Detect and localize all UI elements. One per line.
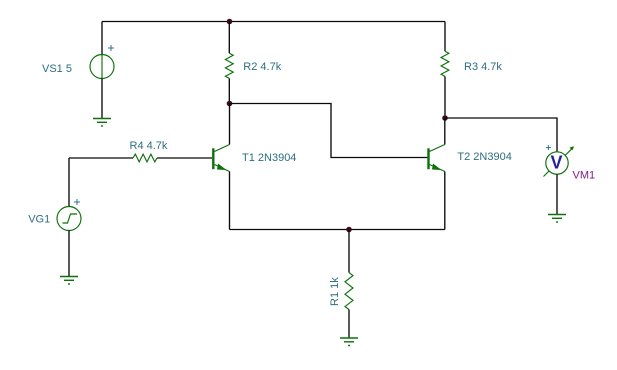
VM1 plus sign bbox=[546, 145, 551, 150]
resistor R1 bbox=[345, 273, 353, 310]
transistor T1 2N3904 bbox=[213, 145, 229, 172]
svg-text:R4 4.7k: R4 4.7k bbox=[130, 140, 168, 152]
transistor T2 2N3904 bbox=[429, 145, 445, 172]
wire R4 to T1 base bbox=[157, 157, 212, 159]
generator VG1 bbox=[57, 207, 81, 231]
node R2-T1 collector junction bbox=[227, 101, 233, 107]
wire cross-coupling R2 node to T2 base bbox=[230, 104, 428, 158]
wire node to voltmeter bbox=[445, 118, 557, 152]
wire T2 emitter down bbox=[444, 172, 446, 230]
svg-text:T2 2N3904: T2 2N3904 bbox=[457, 151, 511, 163]
resistor R2 bbox=[225, 53, 233, 78]
wire T1 collector bbox=[229, 104, 231, 145]
wire VG1 bottom lead bbox=[68, 231, 70, 277]
ground VG1 bbox=[60, 277, 78, 285]
wire VS1 top lead bbox=[101, 22, 103, 55]
node R3-T2 collector junction bbox=[442, 115, 448, 121]
wire R3 top lead bbox=[444, 22, 446, 52]
ground VS1 bbox=[93, 119, 111, 127]
ground R1 bbox=[340, 338, 358, 346]
node top junction dot bbox=[227, 19, 233, 25]
wire T1 emitter down bbox=[229, 172, 231, 230]
svg-text:VG1: VG1 bbox=[28, 213, 50, 225]
wire R3 bottom lead bbox=[444, 76, 446, 118]
voltage source VS1 bbox=[90, 55, 114, 79]
wire VS1 bottom lead bbox=[101, 79, 103, 119]
voltmeter VM1 bbox=[544, 147, 574, 176]
resistor R3 bbox=[441, 51, 449, 76]
wire VG1 top lead bbox=[68, 158, 70, 207]
wire T1 base from R4 bbox=[69, 157, 133, 159]
wire T2 collector bbox=[444, 118, 446, 145]
svg-text:T1 2N3904: T1 2N3904 bbox=[242, 152, 296, 164]
svg-text:R3 4.7k: R3 4.7k bbox=[464, 61, 502, 73]
svg-text:VS1 5: VS1 5 bbox=[42, 63, 72, 75]
node emitter rail junction bbox=[346, 227, 352, 233]
VG1 plus sign bbox=[74, 199, 80, 205]
resistor R4 bbox=[133, 154, 157, 162]
svg-text:R2 4.7k: R2 4.7k bbox=[243, 61, 281, 73]
wire bottom emitter rail bbox=[230, 229, 445, 231]
wire R1 top lead bbox=[348, 230, 350, 273]
wire R2 top lead bbox=[228, 22, 230, 54]
ground VM1 bbox=[548, 215, 566, 223]
wire R1 bottom lead bbox=[348, 310, 350, 339]
svg-text:V: V bbox=[550, 152, 562, 172]
VS1 plus sign bbox=[108, 45, 114, 51]
wire R2 bottom lead bbox=[228, 78, 230, 103]
svg-text:R1 1k: R1 1k bbox=[329, 277, 341, 306]
wire top rail bbox=[102, 21, 445, 23]
VM1 arrow head bbox=[570, 146, 574, 150]
svg-text:VM1: VM1 bbox=[573, 170, 596, 182]
wire VM1 bottom lead bbox=[556, 174, 558, 214]
